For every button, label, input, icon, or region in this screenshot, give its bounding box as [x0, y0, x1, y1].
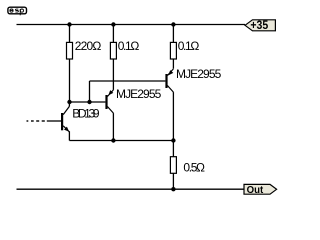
svg-text:MJE2955: MJE2955 — [176, 67, 222, 81]
svg-text:BD139: BD139 — [72, 107, 100, 121]
svg-text:0.1Ω: 0.1Ω — [178, 39, 200, 53]
svg-text:MJE2955: MJE2955 — [116, 87, 162, 101]
svg-text:0.1Ω: 0.1Ω — [118, 39, 140, 53]
svg-text:0.5Ω: 0.5Ω — [183, 160, 205, 174]
svg-text:Out: Out — [247, 185, 264, 196]
svg-text:220Ω: 220Ω — [75, 39, 102, 53]
svg-text:+35: +35 — [250, 18, 268, 32]
